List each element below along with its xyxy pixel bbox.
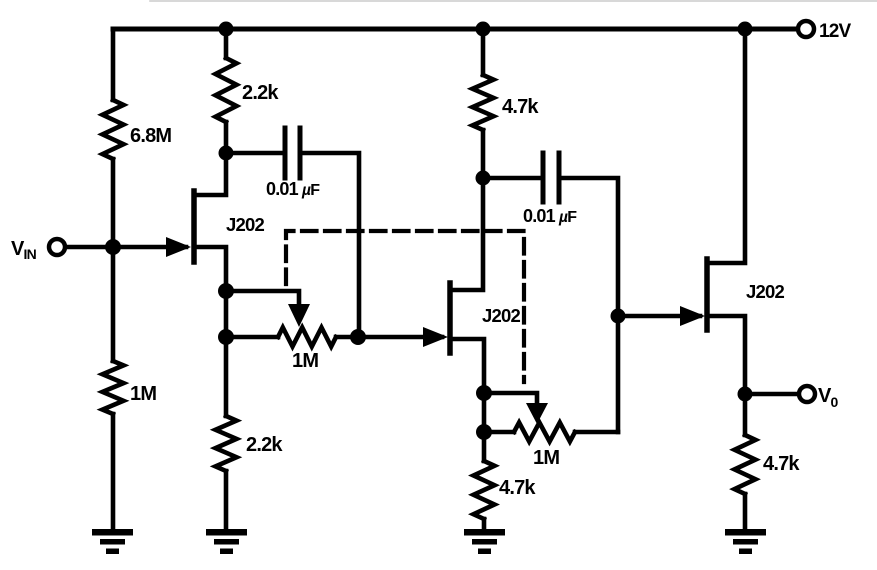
wiper arrow P1 bbox=[288, 304, 310, 327]
wire V0 lead bbox=[745, 392, 799, 397]
svg-text:1M: 1M bbox=[292, 350, 318, 372]
svg-text:VIN: VIN bbox=[11, 238, 37, 262]
resistor R 4.7k middle top bbox=[473, 75, 494, 130]
ground 3 bbox=[464, 529, 505, 554]
wire 4.7k right lead bbox=[743, 394, 748, 435]
potentiometer P2 wiper wire bbox=[484, 393, 537, 405]
wire 4.7k to node bbox=[481, 130, 486, 178]
svg-text:0.01 µF: 0.01 µF bbox=[523, 206, 577, 226]
potentiometer P1 wiper wire bbox=[226, 291, 299, 306]
svg-text:J202: J202 bbox=[746, 281, 784, 302]
wire column2 lower bbox=[224, 337, 229, 416]
wire gate 2 bbox=[358, 335, 442, 340]
capacitor C1 right wire bbox=[302, 153, 359, 337]
wire pot2 right lead bbox=[575, 430, 618, 435]
wire source 3 bbox=[709, 316, 745, 394]
junction node source1/wiper bbox=[218, 283, 234, 299]
resistor R 1M left bbox=[103, 361, 124, 414]
junction node pot1 right bbox=[350, 329, 366, 345]
svg-text:2.2k: 2.2k bbox=[246, 434, 283, 456]
svg-text:1M: 1M bbox=[130, 383, 156, 405]
wiper arrow P2 bbox=[526, 403, 548, 424]
resistor R 2.2k bottom bbox=[216, 416, 237, 471]
svg-text:0.01 µF: 0.01 µF bbox=[266, 179, 320, 199]
junction node top rail at 4.7k bbox=[476, 22, 491, 37]
resistor R 4.7k right bbox=[735, 435, 756, 494]
wire left rail middle bbox=[111, 159, 116, 361]
svg-text:12V: 12V bbox=[819, 21, 852, 42]
wire 2.2k to node bbox=[224, 122, 229, 153]
capacitor C1 plates bbox=[283, 128, 288, 178]
capacitor C1 0.01uF left wire bbox=[226, 151, 282, 156]
dashed gang link bbox=[286, 231, 524, 382]
junction node gate3 bbox=[611, 309, 626, 324]
transistor Q2 J202 channel bar bbox=[447, 283, 453, 353]
junction node pot1 left bbox=[218, 329, 234, 345]
capacitor C2 plates bbox=[541, 153, 546, 202]
wire drain 3 bbox=[709, 29, 745, 263]
svg-text:4.7k: 4.7k bbox=[763, 453, 800, 475]
wire left rail top (6.8M branch) bbox=[111, 29, 116, 100]
wire to ground 4 bbox=[743, 494, 748, 531]
transistor Q1 J202 channel bar bbox=[191, 191, 197, 262]
wire drain 1 bbox=[196, 153, 226, 195]
wire to ground 2 bbox=[224, 471, 229, 531]
wire gate 3 bbox=[618, 314, 700, 319]
transistor Q3 J202 channel bar bbox=[704, 259, 710, 330]
svg-text:4.7k: 4.7k bbox=[499, 477, 536, 499]
junction node V0 bbox=[738, 387, 753, 402]
terminal VIN bbox=[49, 239, 65, 255]
gate arrow Q2 bbox=[423, 327, 448, 347]
wire source 1 bbox=[196, 247, 226, 291]
ground 4 bbox=[725, 529, 766, 554]
wire 2.2k top lead bbox=[224, 29, 229, 58]
scan edge artifact top bbox=[150, 0, 877, 2]
junction node pot2 left bbox=[476, 424, 492, 440]
wire 4.7k mid bottom lead bbox=[482, 432, 487, 461]
junction node top rail at 2.2k bbox=[219, 22, 234, 37]
wire to ground 3 bbox=[482, 519, 487, 531]
ground 2 bbox=[206, 529, 247, 554]
svg-text:J202: J202 bbox=[226, 214, 264, 235]
svg-text:2.2k: 2.2k bbox=[242, 82, 279, 104]
resistor R 6.8M bbox=[103, 100, 124, 159]
junction node cap1 bbox=[219, 146, 234, 161]
capacitor C2 right wire bbox=[561, 178, 618, 432]
wire gate 1 bbox=[113, 245, 186, 250]
wire 12V top rail bbox=[113, 27, 799, 32]
svg-text:4.7k: 4.7k bbox=[502, 96, 539, 118]
svg-text:6.8M: 6.8M bbox=[130, 125, 171, 147]
gate arrow Q1 bbox=[166, 237, 191, 257]
ground 1 bbox=[92, 529, 133, 554]
wire pot1 right lead bbox=[336, 335, 358, 340]
wire source 2 bbox=[452, 339, 484, 393]
wire node to pot2 node bbox=[482, 393, 487, 432]
svg-text:J202: J202 bbox=[482, 305, 520, 326]
wire left rail bottom bbox=[111, 414, 116, 531]
gate arrow Q3 bbox=[680, 306, 705, 326]
resistor R 4.7k middle bottom bbox=[474, 461, 495, 519]
resistor R 2.2k top bbox=[216, 58, 237, 122]
capacitor C2 0.01uF left wire bbox=[483, 176, 540, 181]
wire node to node column2 bbox=[224, 291, 229, 337]
svg-text:1M: 1M bbox=[533, 447, 559, 469]
junction node cap2 bbox=[476, 171, 491, 186]
junction node VIN bbox=[105, 239, 121, 255]
svg-text:V0: V0 bbox=[818, 385, 839, 410]
terminal 12V bbox=[798, 21, 814, 37]
junction node source2/wiper2 bbox=[476, 385, 492, 401]
wire pot1 left lead bbox=[226, 335, 278, 340]
wire 4.7k mid top lead bbox=[481, 29, 486, 75]
potentiometer P1 body 1M bbox=[278, 328, 336, 347]
wire pot2 left lead bbox=[484, 430, 514, 435]
junction node top rail at Q3 bbox=[738, 22, 753, 37]
terminal V0 bbox=[799, 386, 815, 402]
wire VIN lead bbox=[64, 245, 113, 250]
potentiometer P2 body 1M bbox=[514, 423, 575, 442]
wire drain 2 bbox=[452, 178, 483, 290]
